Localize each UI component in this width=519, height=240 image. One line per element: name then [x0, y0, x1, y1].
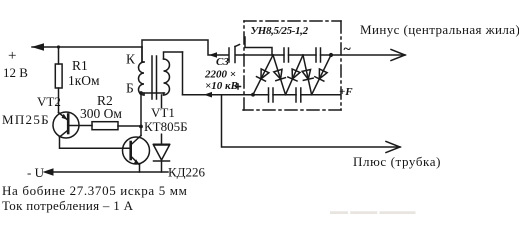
arrowhead -U output (left) — [43, 168, 54, 175]
svg-text:R1: R1 — [72, 58, 88, 73]
note current draw — [2, 198, 134, 213]
label -U terminal — [27, 165, 45, 180]
capacitor top row 2 — [316, 48, 321, 62]
label KD226 — [168, 165, 206, 180]
node top right of multiplier — [329, 53, 333, 57]
capacitor bottom row 2 — [296, 88, 301, 102]
node R2 / VT1 collector junction — [139, 125, 143, 129]
svg-text:МП25Б: МП25Б — [2, 112, 50, 127]
diode VD1 KD226 — [154, 95, 170, 172]
plus polarity mark bottom rail left — [236, 84, 241, 89]
wire transformer bottom stub — [140, 93, 165, 95]
label R2 value — [80, 93, 122, 121]
svg-text:Б: Б — [126, 81, 134, 96]
wire multiplier bottom rail — [183, 94, 341, 96]
svg-text:КД226: КД226 — [168, 165, 206, 180]
transformer T1 secondary winding — [164, 52, 183, 95]
wire secondary top to multiplier bottom rail — [182, 52, 184, 95]
svg-text:С3: С3 — [216, 56, 229, 68]
svg-text:~: ~ — [343, 42, 351, 57]
node multiplier bottom left — [251, 93, 255, 97]
diode D5 of multiplier — [312, 55, 331, 95]
wire minus output with open arrowhead — [331, 50, 405, 61]
svg-text:Плюс (трубка): Плюс (трубка) — [353, 154, 441, 169]
label VT1 type — [144, 105, 191, 134]
svg-text:Ток потребления – 1 А: Ток потребления – 1 А — [2, 198, 134, 213]
wire label stub inside multiplier — [245, 37, 272, 55]
wire R2 to VT1 collector node — [118, 125, 141, 127]
svg-text:12 В: 12 В — [3, 65, 28, 80]
svg-text:КТ805Б: КТ805Б — [144, 119, 188, 134]
label VT2 type — [2, 94, 61, 127]
svg-text:- U: - U — [27, 165, 45, 180]
wire collector VT1 to transformer — [140, 93, 142, 136]
multiplier U1 dashed enclosure — [243, 21, 341, 110]
note spark length — [2, 183, 188, 198]
svg-text:+: + — [8, 48, 16, 64]
svg-text:На бобине 27.3705 искра 5 мм: На бобине 27.3705 искра 5 мм — [2, 183, 188, 198]
diode D1 of multiplier — [253, 55, 273, 95]
capacitor bottom row 1 — [269, 88, 274, 102]
transistor VT1 KT805B — [123, 136, 150, 173]
node junction R1 / +12V rail — [57, 45, 60, 48]
capacitor top row 1 — [284, 48, 289, 62]
svg-text:Минус (центральная жила): Минус (центральная жила) — [360, 22, 519, 37]
wire VT2 base to R2 — [70, 125, 93, 127]
transistor VT2 MP25B — [53, 112, 79, 138]
label winding terminal K — [126, 52, 136, 67]
arrowhead +12V supply (left) — [32, 43, 45, 50]
wire +12V top rail — [32, 46, 142, 48]
diode D2 of multiplier — [273, 55, 286, 95]
wire emitter rail -U — [52, 171, 168, 173]
svg-text:300 Ом: 300 Ом — [80, 106, 122, 121]
svg-text:×10 кВ: ×10 кВ — [205, 80, 238, 92]
diode D4 of multiplier — [301, 55, 313, 95]
label ~ input terminal — [343, 42, 351, 57]
label +12V terminal — [3, 48, 28, 80]
label minus output — [360, 22, 519, 37]
resistor R2 body — [92, 122, 118, 130]
svg-text:УН8,5/25-1,2: УН8,5/25-1,2 — [251, 25, 309, 37]
svg-text:VT2: VT2 — [37, 94, 61, 109]
capacitor C3 2200x10kV plates — [229, 45, 240, 63]
svg-text:2200 ×: 2200 × — [204, 69, 236, 81]
wire VT2 collector to VT1 base — [60, 137, 131, 148]
wire plus output with open arrowhead — [222, 95, 401, 153]
diode D3 of multiplier — [286, 55, 304, 95]
arrowhead polarity marker near C3 — [209, 52, 217, 58]
label +F terminal — [339, 86, 353, 98]
transformer T1 core — [152, 56, 157, 99]
wire top rail to C3 — [142, 40, 229, 62]
wire multiplier top rail — [236, 54, 332, 56]
label winding terminal B — [126, 81, 134, 96]
svg-text:+F: +F — [339, 86, 353, 98]
svg-text:К: К — [126, 52, 136, 67]
label multiplier type UN8.5/25-1.2 — [251, 25, 309, 37]
label R1 value — [68, 58, 100, 88]
svg-text:▬▬ ▬▬▬ ▬▬▬▬: ▬▬ ▬▬▬ ▬▬▬▬ — [330, 206, 416, 216]
label plus output — [353, 154, 441, 169]
node transformer bottom junction — [139, 91, 143, 95]
label C3 handwritten — [204, 56, 238, 92]
svg-text:VT1: VT1 — [151, 105, 175, 120]
arrowhead polarity marker bottom rail — [204, 92, 212, 98]
faint scan watermark — [330, 206, 416, 216]
resistor R1 body — [55, 47, 62, 113]
transformer T1 primary winding K-B — [139, 47, 144, 95]
svg-text:1кОм: 1кОм — [68, 73, 100, 88]
